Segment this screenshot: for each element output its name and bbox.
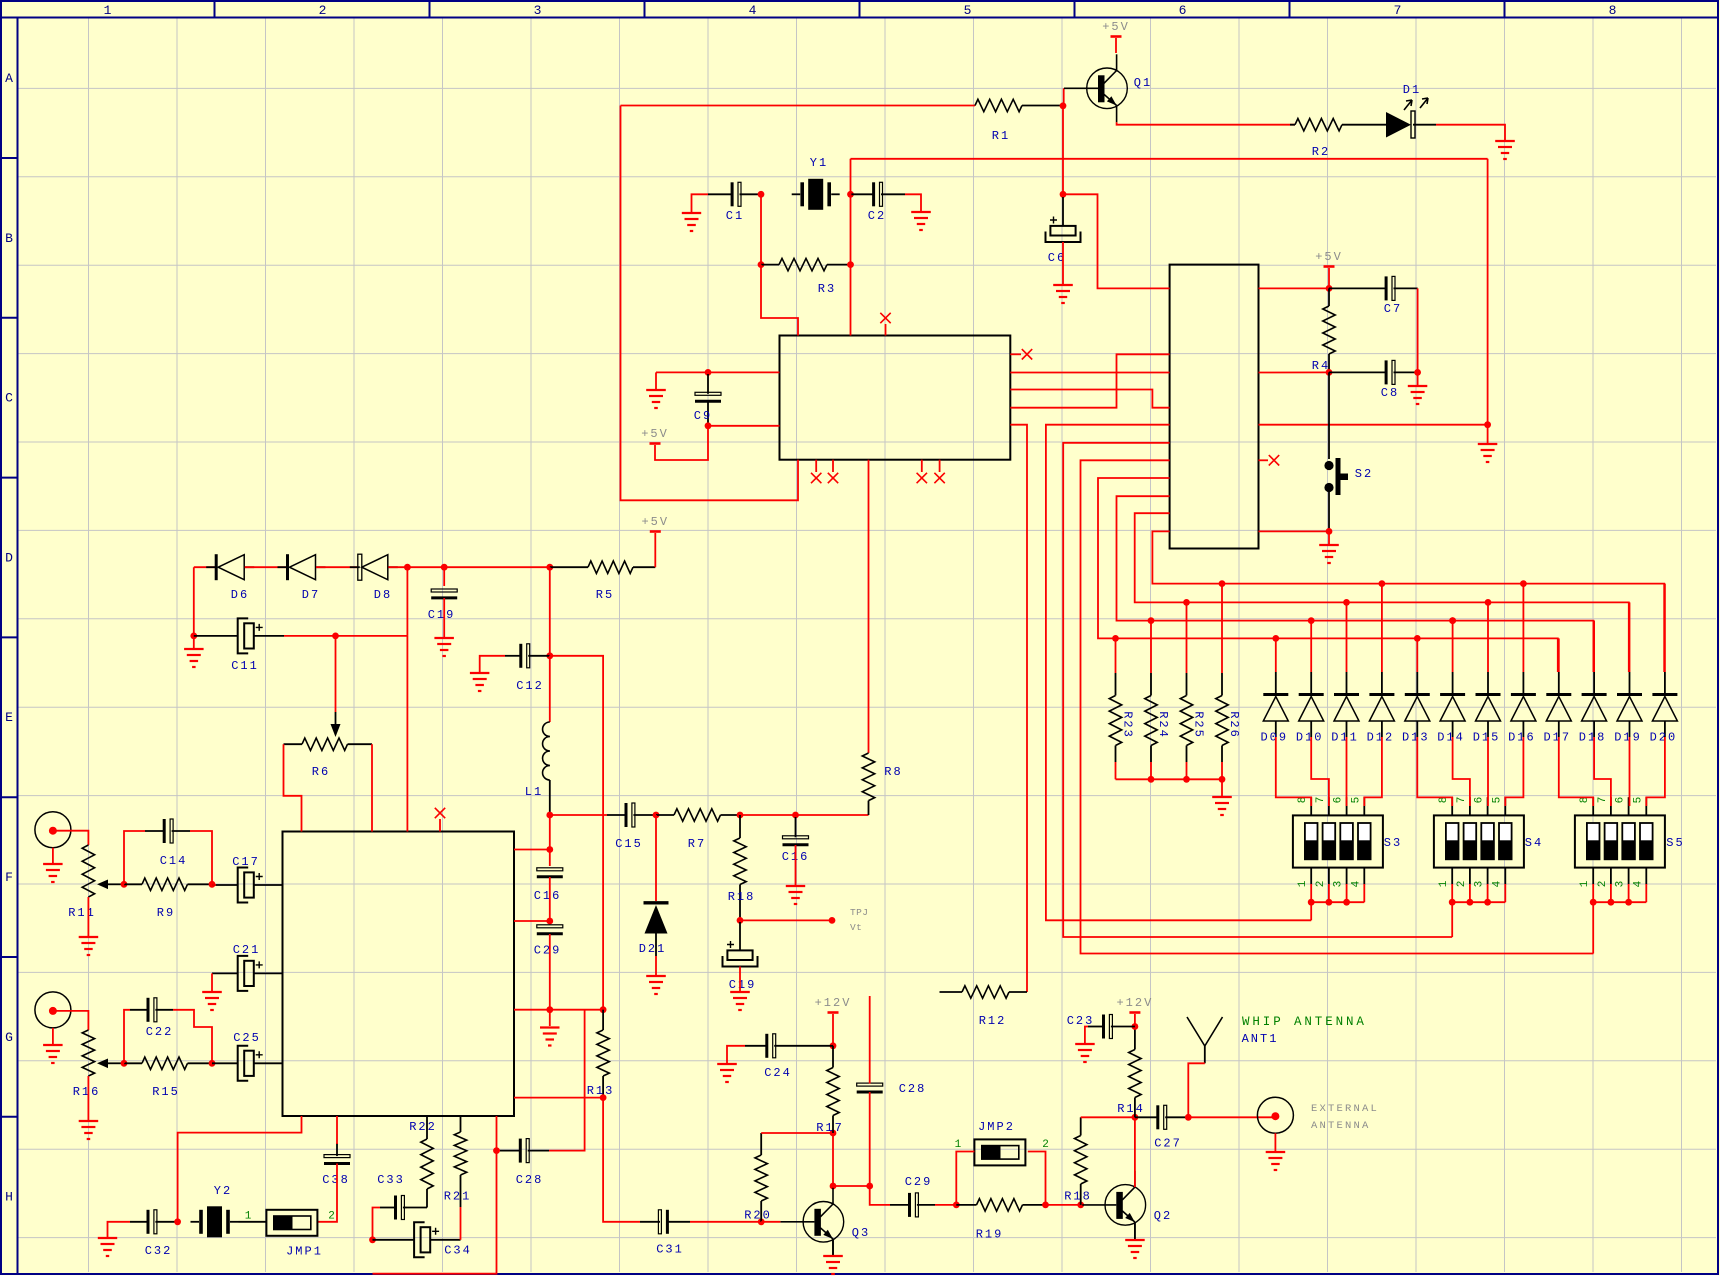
junction: [1132, 1114, 1139, 1121]
wire common to ground: [1221, 779, 1223, 796]
svg-text:B: B: [5, 231, 13, 246]
wire C28b down: [869, 1092, 871, 1186]
junction: [1343, 599, 1350, 606]
wire crystal left node down: [760, 194, 762, 264]
diode D17: [1543, 638, 1571, 744]
svg-text:D11: D11: [1331, 731, 1359, 745]
IC U3 (top-left block): [780, 336, 1011, 460]
capacitor C9: [694, 374, 721, 426]
capacitor C31: [640, 1210, 690, 1257]
capacitor C34: [373, 1222, 472, 1257]
resistor R19: [956, 1199, 1045, 1242]
capacitor C22: [130, 998, 173, 1039]
wire R21 to C34: [460, 1207, 462, 1240]
wire R26 bottom: [1221, 762, 1223, 779]
resistor R24: [1145, 673, 1170, 762]
svg-text:C25: C25: [233, 1031, 261, 1045]
junction: [737, 917, 744, 924]
junction: [1485, 599, 1492, 606]
wire C32 left to ground: [108, 1222, 131, 1237]
capacitor C16a: [782, 817, 810, 864]
no-connect (U4 right pin): [1259, 455, 1280, 465]
svg-text:R5: R5: [596, 588, 614, 602]
wire to ground (C9): [655, 372, 657, 389]
wire D15 to switch: [1487, 737, 1489, 806]
svg-text:JMP1: JMP1: [286, 1245, 323, 1259]
capacitor C15: [607, 803, 656, 851]
svg-text:L1: L1: [525, 785, 543, 799]
svg-text:R17: R17: [816, 1121, 844, 1135]
diode D6: [206, 554, 254, 602]
wire switch common bar: [1311, 901, 1364, 903]
wire U4 to S4 common: [1063, 443, 1452, 937]
junction: [1148, 776, 1155, 783]
wire switch common bar: [1593, 901, 1646, 903]
junction: [1326, 285, 1333, 292]
junction: [1414, 635, 1421, 642]
wire R20 top to R17 node: [761, 1132, 833, 1134]
wire left rail down to U3 pin: [621, 106, 799, 501]
svg-text:A: A: [5, 71, 13, 86]
svg-text:D12: D12: [1367, 731, 1395, 745]
svg-text:C27: C27: [1154, 1137, 1182, 1151]
ground (C29a): [540, 1028, 560, 1046]
capacitor C8: [1329, 360, 1418, 400]
wire switch pin down: [1363, 884, 1365, 902]
wire crystal right node down to U3: [850, 159, 852, 336]
potentiometer R16: [73, 1030, 124, 1099]
wire switch pin down: [1328, 884, 1330, 902]
junction: [1326, 369, 1333, 376]
wire D16 to switch: [1505, 737, 1523, 806]
wire Q3 base: [761, 1221, 780, 1223]
svg-text:Y1: Y1: [810, 156, 828, 170]
wire switch pins common: [1592, 884, 1594, 954]
wire C19a to ground: [443, 598, 445, 637]
wire D13 to switch: [1417, 737, 1452, 806]
ground (U4 pin): [1478, 444, 1498, 462]
svg-text:H: H: [5, 1190, 13, 1205]
capacitor C11: [194, 618, 284, 673]
wire R25 top: [1186, 602, 1188, 673]
wire D7-D8: [316, 566, 358, 568]
junction: [1042, 1202, 1049, 1209]
wire U4 to LED row 4: [1098, 478, 1558, 672]
wire U1 pin long down: [373, 1116, 497, 1274]
wire U4 pin to gnd column: [1259, 425, 1488, 443]
svg-text:7: 7: [1394, 3, 1402, 18]
power +5V (R4): [1315, 250, 1343, 288]
wire S2 to ground: [1328, 531, 1330, 544]
svg-text:4: 4: [1350, 880, 1362, 887]
ground (Q3): [823, 1256, 843, 1274]
wire C2 to ground: [905, 194, 921, 211]
svg-text:C8: C8: [1381, 386, 1399, 400]
svg-text:D1: D1: [1403, 83, 1421, 97]
capacitor C7: [1329, 276, 1418, 316]
svg-text:+5V: +5V: [641, 515, 669, 529]
no-connect (U3 bottom pin c): [917, 460, 927, 484]
svg-text:S4: S4: [1525, 836, 1543, 850]
capacitor C6: [1046, 197, 1081, 265]
capacitor C28b: [857, 1082, 927, 1096]
junction: [332, 633, 339, 640]
junction: [1449, 617, 1456, 624]
ground (C1): [682, 213, 701, 231]
wire right column down: [1487, 159, 1489, 425]
svg-text:5: 5: [1632, 797, 1644, 804]
junction: [758, 191, 765, 198]
junction: [653, 812, 660, 819]
junction: [866, 1183, 873, 1190]
svg-text:C31: C31: [656, 1243, 684, 1257]
wire U3 pin to R12 column: [1010, 425, 1027, 992]
wire C19-node down to C12 node: [549, 567, 551, 656]
junction: [121, 881, 128, 888]
svg-text:TPJ: TPJ: [850, 907, 868, 918]
svg-text:C19: C19: [729, 978, 757, 992]
svg-text:S5: S5: [1666, 836, 1684, 850]
wire BNC1 to ground: [52, 848, 54, 863]
wire D17 to switch: [1559, 737, 1593, 806]
junction: [1484, 899, 1491, 906]
junction: [1183, 599, 1190, 606]
wire C16 node to R8: [796, 814, 869, 816]
junction: [1590, 899, 1597, 906]
svg-text:C33: C33: [377, 1173, 405, 1187]
no-connect (U3 right pin): [1010, 349, 1032, 359]
diode D18: [1579, 621, 1607, 745]
svg-text:C15: C15: [615, 837, 643, 851]
resistor R26: [1216, 673, 1241, 762]
crystal Y2: [191, 1184, 239, 1237]
svg-text:D17: D17: [1543, 731, 1571, 745]
svg-text:D14: D14: [1437, 731, 1465, 745]
ground (C2): [911, 212, 931, 230]
wire D10 to switch: [1311, 737, 1329, 806]
svg-text:D: D: [5, 550, 13, 565]
no-connect (U3 bottom pin d): [934, 460, 944, 484]
wire R22 to C33: [407, 1189, 427, 1208]
resistor R18a: [728, 815, 756, 920]
wire R1 to Q1 base: [1062, 88, 1065, 106]
diode D20: [1650, 584, 1678, 745]
wire switch pin down: [1610, 884, 1612, 902]
svg-text:S2: S2: [1355, 467, 1373, 481]
junction: [1308, 899, 1315, 906]
resistor R4: [1312, 288, 1335, 373]
wire R7 to C16 node: [740, 814, 796, 816]
svg-text:2: 2: [1456, 881, 1468, 888]
junction: [1219, 580, 1226, 587]
label EXTERNAL ANTENNA: [1311, 1103, 1379, 1132]
svg-text:2: 2: [1042, 1139, 1049, 1151]
ground (BNC2): [43, 1045, 63, 1063]
svg-text:R7: R7: [688, 837, 706, 851]
wire U1 pin to R13 bottom: [514, 1097, 603, 1099]
ground (C8): [1408, 386, 1428, 404]
wire JMP2 pin1: [956, 1152, 974, 1205]
svg-text:7: 7: [1597, 797, 1609, 804]
junction: [847, 261, 854, 268]
junction: [1060, 102, 1067, 109]
svg-text:C22: C22: [146, 1025, 174, 1039]
wire switch pin down: [1346, 884, 1348, 902]
junction: [1132, 1023, 1139, 1030]
resistor R9: [124, 878, 212, 920]
diode D8: [350, 554, 398, 602]
wire R23-R26 common: [1116, 778, 1223, 780]
wire R6 left to U1: [284, 744, 302, 831]
junction: [792, 812, 799, 819]
ground (C21): [202, 992, 222, 1010]
diode D19: [1614, 602, 1642, 744]
svg-text:D09: D09: [1260, 731, 1288, 745]
diode D21: [639, 815, 669, 956]
ground (C24): [717, 1064, 737, 1082]
svg-text:C: C: [5, 391, 13, 406]
junction: [546, 652, 553, 659]
junction: [190, 633, 197, 640]
svg-text:C21: C21: [233, 943, 261, 957]
junction: [546, 918, 553, 925]
svg-text:R24: R24: [1156, 711, 1170, 739]
junction: [830, 1183, 837, 1190]
ground (C16a): [786, 886, 805, 904]
wire R5 to +5V: [654, 533, 656, 567]
switch S2: [1324, 372, 1373, 531]
resistor R20: [744, 1133, 772, 1223]
junction: [758, 261, 765, 268]
wire C9 top node: [656, 371, 780, 373]
svg-text:D10: D10: [1296, 731, 1324, 745]
junction: [546, 812, 553, 819]
power +5V (Q1 collector): [1102, 20, 1130, 53]
capacitor C2: [851, 182, 906, 223]
junction: [953, 1202, 960, 1209]
capacitor C25: [212, 1031, 283, 1081]
wire U4 to S3 common: [1046, 425, 1311, 921]
wire R14 node left: [1081, 1116, 1135, 1118]
svg-text:WHIP ANTENNA: WHIP ANTENNA: [1242, 1015, 1367, 1029]
svg-text:Q3: Q3: [852, 1226, 870, 1240]
ground (D1): [1495, 141, 1515, 159]
svg-text:+5V: +5V: [1102, 20, 1130, 34]
svg-text:C28: C28: [899, 1082, 927, 1096]
wire diode node down: [406, 567, 408, 636]
wire C33 to C34 node: [373, 1208, 381, 1240]
resistor R22: [409, 1116, 437, 1189]
wire R24 top: [1150, 621, 1152, 673]
wire C11 to R6 node: [284, 635, 407, 637]
svg-text:D18: D18: [1579, 731, 1607, 745]
wire C22 left: [124, 1010, 130, 1064]
svg-text:C9: C9: [694, 409, 712, 423]
wire C9 bottom node to U3: [708, 425, 780, 427]
junction: [1449, 899, 1456, 906]
DIP switch S5: [1575, 797, 1685, 888]
wire JMP2 pin2: [1028, 1152, 1046, 1205]
svg-text:1: 1: [104, 3, 112, 18]
wire D1 to ground: [1436, 125, 1505, 140]
svg-text:D19: D19: [1614, 731, 1642, 745]
svg-text:C34: C34: [444, 1244, 472, 1258]
resistor R18b: [1064, 1117, 1092, 1205]
junction: [546, 564, 553, 571]
svg-text:E: E: [5, 710, 13, 725]
wire R6 arrow feed: [335, 636, 337, 712]
wire C28a left to column: [497, 1150, 501, 1152]
junction: [1414, 369, 1421, 376]
wire C28a right bend: [549, 1010, 585, 1151]
svg-text:1: 1: [1438, 880, 1450, 887]
ground (R26): [1212, 797, 1232, 815]
wire U4 to LED row 3: [1117, 496, 1594, 672]
svg-text:R9: R9: [157, 906, 175, 920]
wire R25 bottom: [1186, 762, 1188, 779]
ground (BNC3): [1266, 1152, 1286, 1170]
transistor Q2: [1082, 1171, 1172, 1239]
svg-text:C29: C29: [534, 944, 562, 958]
no-connect (U3 bottom pin b): [828, 460, 838, 484]
svg-text:2: 2: [1315, 881, 1327, 888]
LED D1: [1342, 83, 1436, 138]
junction: [1183, 776, 1190, 783]
test point TPJ: [829, 907, 869, 933]
junction: [1326, 528, 1333, 535]
wire switch common bar: [1452, 901, 1505, 903]
power +12V (R17): [815, 996, 852, 1046]
wire C29b to JMP2 node: [935, 1204, 956, 1206]
svg-text:R14: R14: [1117, 1102, 1145, 1116]
svg-text:2: 2: [319, 3, 327, 18]
svg-text:7: 7: [1456, 797, 1468, 804]
wire U1 pin to gnd node: [514, 1009, 603, 1011]
wire C12 left to ground: [480, 656, 505, 672]
svg-text:7: 7: [1315, 797, 1327, 804]
ground (Q2): [1125, 1240, 1145, 1258]
IC U4 (tall block): [1170, 265, 1259, 549]
svg-text:C16: C16: [534, 889, 562, 903]
svg-text:+12V: +12V: [1116, 996, 1153, 1010]
wire L1 node to C15: [550, 814, 607, 816]
junction: [1148, 617, 1155, 624]
wire C19b to ground: [739, 967, 741, 992]
svg-text:C12: C12: [516, 679, 544, 693]
junction: [1625, 899, 1632, 906]
wire R11 to ground: [87, 897, 89, 936]
svg-text:R26: R26: [1227, 711, 1241, 739]
wire D21 to ground: [655, 956, 657, 975]
svg-text:R18: R18: [1064, 1190, 1092, 1204]
diode D11: [1331, 602, 1359, 744]
wire R18 to test point: [740, 919, 832, 921]
junction: [404, 564, 411, 571]
junction: [737, 812, 744, 819]
resistor R5: [550, 561, 656, 602]
connector J1 (BNC): [35, 812, 71, 848]
wire Q2 emitter to ground: [1134, 1222, 1136, 1239]
resistor R1: [975, 99, 1063, 143]
wire switch pin down: [1469, 884, 1471, 902]
svg-text:1: 1: [245, 1211, 252, 1223]
wire switch pin down: [1628, 884, 1630, 902]
wire C29a down to ground node: [549, 934, 551, 1026]
ground (C19b): [730, 992, 750, 1010]
svg-text:6: 6: [1333, 797, 1345, 804]
wire C38 top stem: [336, 1116, 338, 1144]
wire C19a stem: [443, 567, 445, 586]
wire switch pin down: [1645, 884, 1647, 902]
capacitor C29a: [534, 925, 563, 958]
arrow (R6 wiper): [331, 712, 341, 737]
wire C12 node to long column: [550, 656, 603, 1010]
wire crystal node to right column: [851, 158, 1488, 160]
wire R19 to R18b node: [1046, 1204, 1081, 1206]
junction: [1308, 617, 1315, 624]
capacitor C17: [212, 855, 283, 903]
resistor R6: [284, 738, 373, 779]
junction: [1608, 899, 1615, 906]
wire R24 bottom: [1150, 762, 1152, 779]
ground (C11 node): [184, 649, 204, 667]
IC U1 (main block): [283, 832, 515, 1117]
capacitor C32: [130, 1210, 178, 1258]
power +12V (R14): [1116, 996, 1153, 1027]
resistor R3: [761, 258, 851, 296]
wire BNC1 to R11: [53, 831, 89, 845]
svg-text:C1: C1: [726, 209, 744, 223]
wire Q2 collector up: [1134, 1117, 1136, 1187]
svg-text:R11: R11: [68, 906, 96, 920]
transistor Q3: [780, 1188, 870, 1256]
svg-text:3: 3: [1474, 881, 1486, 888]
svg-text:Y2: Y2: [214, 1184, 232, 1198]
diode D14: [1437, 621, 1465, 745]
svg-text:G: G: [5, 1030, 13, 1045]
svg-text:1: 1: [1579, 880, 1591, 887]
wire +5V rail to R1 and U3: [621, 105, 976, 107]
svg-text:C23: C23: [1067, 1014, 1095, 1028]
svg-text:C11: C11: [231, 659, 259, 673]
connector J3 (BNC): [1257, 1097, 1293, 1133]
diode D10: [1296, 621, 1324, 745]
no-connect (U3 top pin): [880, 313, 890, 336]
wire R23 top: [1115, 638, 1117, 673]
ground (C12): [470, 673, 490, 691]
wire BNC2 to ground: [52, 1028, 54, 1044]
resistor R2: [1290, 119, 1342, 160]
wire R16 to ground: [87, 1076, 89, 1120]
svg-text:D21: D21: [639, 942, 667, 956]
svg-text:R2: R2: [1312, 145, 1330, 159]
svg-text:1: 1: [955, 1139, 962, 1151]
junction: [1272, 635, 1279, 642]
svg-text:D6: D6: [231, 588, 249, 602]
junction: [1219, 776, 1226, 783]
junction: [1060, 191, 1067, 198]
inductor L1: [525, 656, 550, 815]
svg-text:R19: R19: [976, 1228, 1004, 1242]
svg-text:D15: D15: [1473, 731, 1501, 745]
junction: [1467, 899, 1474, 906]
wire C24 left to ground: [727, 1046, 745, 1063]
capacitor C27: [1135, 1105, 1188, 1150]
svg-text:R15: R15: [152, 1085, 180, 1099]
wire D18 to switch: [1594, 737, 1611, 806]
svg-text:8: 8: [1609, 3, 1617, 18]
wire D6-D7: [245, 566, 288, 568]
